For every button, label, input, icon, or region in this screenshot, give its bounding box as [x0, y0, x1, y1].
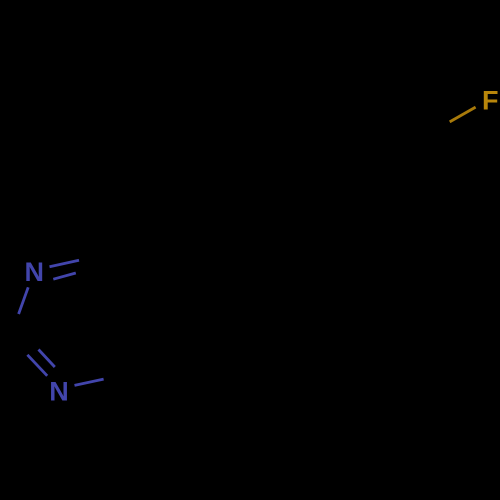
benzene ring C1'-C2' — [294, 135, 297, 209]
benzene ring C3'-C4' — [360, 99, 424, 137]
bond N1=C6 double-bond inner line, nitrogen half — [53, 273, 76, 279]
bond N1-C2 nitrogen half — [19, 287, 29, 314]
benzene ring C6'-C1' — [295, 210, 359, 248]
bond C5-C7 vinyl bridge — [158, 273, 226, 303]
benzene ring C2'-C3' — [296, 99, 361, 135]
bond N1=C6 carbon half — [79, 253, 109, 260]
bond N1=C6 nitrogen half (ring edge) — [50, 260, 80, 267]
fluorine half-bond C4'-F (orange) — [450, 107, 476, 122]
bond N1-C2 carbon half — [9, 314, 19, 340]
bond N3-C4 carbon half — [104, 372, 134, 379]
benzene ring C5'-C6' — [359, 211, 424, 247]
bond N3-C4 nitrogen half — [75, 379, 104, 385]
bond C2=N3 nitrogen half (ring edge) — [27, 355, 47, 376]
svg-text:N: N — [24, 257, 44, 287]
pyrimidine nitrogen half-bonds (blue) — [19, 260, 104, 385]
bond C4=C5 inner line — [124, 305, 145, 363]
bond C7=C8 vinyl bridge — [226, 210, 295, 274]
svg-text:N: N — [49, 376, 69, 406]
invisible carbon skeleton (carbon-colored = black on black), pyrimidine C half-bonds — [9, 99, 450, 379]
bond C2=N3 inner line carbon half — [22, 332, 39, 350]
svg-text:F: F — [482, 86, 499, 116]
bond C2=N3 double-bond inner line, nitrogen half — [39, 350, 55, 368]
bond N1=C6 inner line carbon half — [76, 268, 96, 274]
bond C2=N3 carbon half — [9, 340, 27, 355]
bond C5-C6 — [109, 253, 158, 303]
bond C4=C5 — [134, 303, 158, 372]
bond C4'-F carbon half — [424, 122, 450, 137]
benzene ring C4'-C5' — [422, 137, 425, 211]
